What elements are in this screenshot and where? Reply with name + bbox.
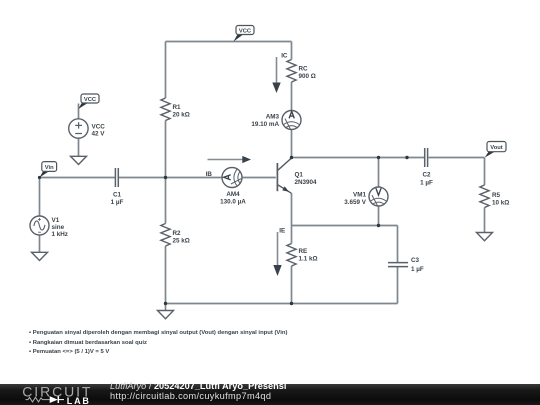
- capacitor C3: [388, 263, 408, 267]
- svg-text:25 kΩ: 25 kΩ: [173, 238, 190, 245]
- wire VM1 top lead: [378, 158, 380, 188]
- transistor Q1: [277, 158, 291, 193]
- current arrow IB: [206, 156, 251, 178]
- wire RC top lead: [291, 42, 293, 60]
- wire emitter horizontal: [292, 225, 398, 227]
- svg-text:Q1: Q1: [295, 171, 304, 178]
- current arrow IC: [272, 53, 288, 94]
- capacitor C2: [425, 148, 428, 167]
- node C2 wire junction: [405, 156, 408, 159]
- svg-text:IB: IB: [206, 171, 213, 178]
- svg-text:42 V: 42 V: [92, 131, 106, 138]
- label AM3 value: [251, 113, 279, 128]
- svg-text:VCC: VCC: [84, 97, 97, 103]
- svg-text:R1: R1: [173, 104, 182, 111]
- wire RE bottom lead: [291, 266, 293, 304]
- wire C2 to Vout corner: [429, 157, 485, 159]
- svg-text:19.10 mA: 19.10 mA: [251, 121, 279, 128]
- svg-text:3.659 V: 3.659 V: [344, 199, 367, 206]
- wire R5 top lead: [484, 158, 486, 186]
- wire R5 bottom lead: [484, 208, 486, 233]
- resistor R1: [161, 98, 170, 121]
- wire R1 top lead: [165, 42, 167, 99]
- wire RC bottom to AM3: [291, 82, 293, 111]
- svg-text:AM3: AM3: [266, 113, 280, 120]
- footer credit text: [110, 381, 286, 403]
- current arrow IE: [273, 228, 285, 277]
- wire Vin to C1: [40, 177, 115, 179]
- svg-text:20 kΩ: 20 kΩ: [173, 112, 190, 119]
- wire C1 to node: [119, 177, 166, 179]
- svg-text:1 kHz: 1 kHz: [52, 231, 68, 238]
- wire top rail: [166, 41, 292, 43]
- svg-text:RE: RE: [299, 248, 308, 255]
- footer logo CircuitLab: [0, 384, 100, 405]
- ground under R5: [477, 233, 493, 241]
- node collector junction: [290, 156, 293, 159]
- svg-text:sine: sine: [52, 224, 65, 231]
- wire R1 bottom to input node: [165, 121, 167, 178]
- node ground rail junction: [164, 302, 167, 305]
- node Vin junction: [38, 176, 41, 179]
- label C1 value: [111, 192, 124, 207]
- voltage source VCC: [69, 119, 88, 138]
- label C2 value: [420, 172, 433, 187]
- label V1 value: [52, 217, 68, 238]
- wire AM4 to base: [242, 177, 276, 179]
- svg-text:VCC: VCC: [239, 29, 252, 35]
- svg-text:1 µF: 1 µF: [420, 180, 433, 187]
- svg-text:VCC: VCC: [92, 124, 106, 131]
- label VCC value: [92, 124, 106, 138]
- svg-text:IE: IE: [279, 228, 285, 235]
- ground under V1: [32, 252, 48, 260]
- capacitor C1: [115, 168, 118, 187]
- ground under VCC source: [71, 156, 87, 164]
- svg-text:2N3904: 2N3904: [295, 179, 318, 186]
- voltmeter VM1: [369, 187, 388, 206]
- svg-text:R2: R2: [173, 230, 182, 237]
- node VM1 bottom junction: [377, 224, 380, 227]
- svg-text:RC: RC: [299, 66, 309, 73]
- ground under R2: [158, 311, 174, 319]
- resistor R5: [480, 185, 489, 208]
- svg-text:900 Ω: 900 Ω: [299, 73, 316, 80]
- wire V1 bottom lead: [39, 235, 41, 252]
- wire bottom rail: [166, 303, 398, 305]
- footer bar: [0, 384, 540, 405]
- label RE value: [299, 248, 318, 263]
- wire RE top lead: [291, 226, 293, 244]
- label AM4 value: [220, 191, 246, 206]
- svg-text:C1: C1: [113, 192, 122, 199]
- label R5 value: [492, 192, 509, 207]
- wire C3 top lead: [397, 226, 399, 263]
- svg-text:1 µF: 1 µF: [411, 266, 424, 273]
- node RE bottom junction: [290, 302, 293, 305]
- wire collector horizontal: [292, 157, 425, 159]
- svg-text:10 kΩ: 10 kΩ: [492, 200, 509, 207]
- ammeter AM4: [222, 168, 242, 188]
- notes bullet list: [29, 329, 287, 358]
- label R1 value: [173, 104, 190, 119]
- wire V1 top lead: [39, 178, 41, 217]
- source V1 sine: [30, 216, 49, 235]
- flag VCC source: [78, 94, 99, 109]
- wire VCC source top lead: [78, 104, 80, 120]
- label C3 value: [411, 257, 424, 273]
- flag Vout: [485, 142, 506, 158]
- svg-text:VM1: VM1: [353, 191, 366, 198]
- label Q1 value: [295, 171, 318, 186]
- label R2 value: [173, 230, 190, 245]
- svg-text:Vin: Vin: [45, 165, 54, 171]
- label RC value: [299, 66, 316, 81]
- svg-text:1 µF: 1 µF: [111, 199, 124, 206]
- label VM1 value: [344, 191, 367, 206]
- flag Vin: [40, 162, 57, 178]
- svg-text:1.1 kΩ: 1.1 kΩ: [299, 256, 318, 263]
- wire node to AM4: [166, 177, 223, 179]
- ammeter AM3: [282, 111, 301, 130]
- svg-text:C2: C2: [422, 172, 431, 179]
- resistor R2: [161, 224, 170, 247]
- svg-text:V1: V1: [52, 217, 60, 224]
- node VM1 top junction: [377, 156, 380, 159]
- resistor RC: [287, 60, 296, 83]
- wire R2 bottom lead: [165, 246, 167, 304]
- wire C3 bottom lead: [397, 267, 399, 304]
- wire emitter vertical: [291, 193, 293, 226]
- wire VCC source bottom lead: [78, 138, 80, 156]
- svg-text:Vout: Vout: [490, 145, 503, 151]
- flag VCC top: [234, 26, 255, 42]
- svg-text:R5: R5: [492, 192, 501, 199]
- resistor RE: [287, 244, 296, 267]
- wire AM3 to collector node: [291, 130, 293, 158]
- svg-text:C3: C3: [411, 257, 420, 264]
- node input divider junction: [164, 176, 167, 179]
- wire R2 top lead: [165, 178, 167, 224]
- svg-text:130.0 µA: 130.0 µA: [220, 199, 246, 206]
- wire VM1 bottom lead: [378, 206, 380, 226]
- svg-text:LAB: LAB: [67, 396, 91, 405]
- svg-text:IC: IC: [281, 53, 288, 60]
- svg-text:AM4: AM4: [226, 191, 240, 198]
- wire ground stem node B: [165, 304, 167, 311]
